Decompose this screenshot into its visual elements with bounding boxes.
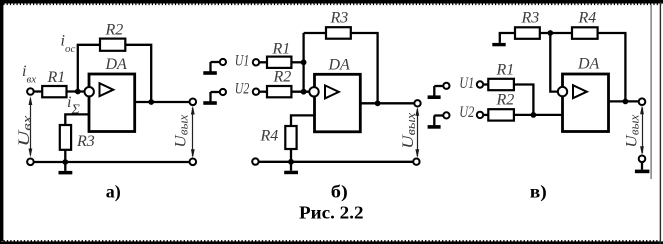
wire U1 to R1 (circuit v): [483, 83, 489, 85]
input circle U1 (circuit b): [253, 59, 259, 65]
svg-text:DA: DA: [328, 56, 351, 73]
wire summing vertical (circuit b): [302, 33, 304, 92]
svg-text:а): а): [106, 181, 121, 202]
node summing junction (circuit v): [531, 112, 537, 118]
node ground junction (circuit b): [288, 159, 294, 165]
input circle U1 (circuit v): [477, 81, 483, 87]
node ground junction (circuit a): [62, 159, 68, 165]
wire input to R1 (circuit a): [33, 90, 43, 92]
ground bottom (circuit v): [635, 162, 650, 173]
resistor R3 (circuit a): [60, 125, 71, 150]
wire R2 to non-inverting input (circuit v): [514, 114, 563, 116]
input terminal symbol 1 (circuit b): [203, 59, 226, 75]
op-amp inverting input circle (circuit a): [85, 87, 94, 96]
svg-text:DA: DA: [105, 56, 128, 73]
resistor R1 (circuit a): [42, 86, 66, 97]
input terminal circle (circuit a): [27, 88, 34, 95]
op-amp DA (circuit a): [89, 74, 135, 132]
svg-text:DA: DA: [577, 55, 600, 72]
wire U1 to R1 (circuit b): [259, 61, 268, 63]
output terminal circle top (circuit a): [190, 99, 197, 106]
node R1 junction (circuit b): [301, 59, 307, 65]
op-amp triangle (circuit v): [573, 85, 587, 98]
resistor R1 (circuit b): [267, 57, 291, 68]
output terminal circle top (circuit b): [414, 100, 420, 106]
border frame right edge line: [659, 2, 661, 244]
node R3-R4 junction (circuit v): [547, 30, 553, 36]
svg-text:U1: U1: [459, 75, 474, 92]
op-amp triangle (circuit b): [325, 85, 339, 98]
resistor R4 (circuit v): [572, 27, 598, 39]
output terminal circle bottom (circuit b): [413, 159, 419, 165]
voltage arrow U_vyx (circuit v): [640, 105, 644, 155]
wire R3 to rail (circuit a): [64, 150, 66, 162]
bottom left terminal circle (circuit a): [27, 159, 34, 166]
svg-text:R2: R2: [496, 92, 515, 109]
wire R1 to op-amp input (circuit a): [67, 90, 87, 92]
node feedback-output junction (circuit b): [375, 100, 381, 106]
wire feedback top right (circuit b): [351, 33, 378, 103]
resistor R2 (circuit v): [488, 109, 514, 120]
bottom rail (circuit b): [255, 161, 416, 163]
input terminal symbol 2 (circuit v): [428, 112, 450, 128]
op-amp inverting input circle (circuit b): [309, 87, 318, 96]
wire R3 to R4 (circuit v): [540, 32, 573, 34]
wire R2 to op-amp input (circuit b): [291, 91, 311, 93]
svg-text:R3: R3: [76, 133, 95, 150]
node sum junction (circuit a): [75, 89, 81, 95]
resistor R4 (circuit b): [285, 126, 296, 149]
output terminal circle top (circuit v): [639, 98, 646, 105]
bottom left terminal circle (circuit b): [252, 158, 258, 164]
svg-text:R3: R3: [521, 9, 540, 26]
resistor R3 (circuit v): [515, 27, 540, 39]
svg-text:U2: U2: [235, 80, 250, 97]
svg-text:в): в): [530, 181, 547, 202]
voltage arrow U_vyx (circuit a): [191, 106, 195, 159]
op-amp inverting input circle (circuit v): [558, 87, 567, 96]
wire U2 to R2 (circuit v): [483, 114, 489, 116]
svg-text:U2: U2: [459, 104, 474, 121]
wire feedback top right (circuit a): [125, 45, 151, 102]
border frame bottom toothed bar: [0, 241, 663, 244]
wire R1 to junction (circuit b): [291, 61, 304, 63]
resistor R2 (circuit a): [100, 39, 125, 51]
svg-text:R4: R4: [260, 128, 279, 145]
input circle U2 (circuit b): [253, 89, 259, 95]
svg-text:б): б): [331, 181, 348, 202]
wire non-inverting input (circuit a): [65, 114, 89, 126]
resistor R2 (circuit b): [267, 86, 291, 97]
wire ground to R3 (circuit v): [499, 32, 516, 34]
wire R1 to junction (circuit v): [514, 85, 534, 115]
resistor R1 (circuit v): [488, 79, 514, 90]
input terminal symbol 2 (circuit b): [203, 89, 226, 105]
border frame left bar: [0, 3, 3, 241]
wire feedback top left (circuit b): [304, 32, 327, 34]
wire non-inverting input (circuit b): [291, 115, 315, 127]
node output junction (circuit v): [623, 99, 629, 105]
wire R4 to rail (circuit b): [290, 149, 292, 162]
ground (circuit a): [59, 162, 73, 174]
svg-text:Рис. 2.2: Рис. 2.2: [299, 203, 364, 223]
svg-text:R1: R1: [496, 62, 515, 79]
output terminal circle bottom (circuit a): [190, 159, 197, 166]
wire op-amp output (circuit a): [135, 101, 190, 103]
node R2 junction (circuit b): [301, 89, 307, 95]
svg-text:R1: R1: [272, 40, 291, 57]
svg-text:R3: R3: [330, 9, 349, 26]
border frame right thin line: [650, 5, 652, 179]
svg-text:R2: R2: [273, 68, 292, 85]
wire op-amp output (circuit b): [360, 102, 414, 104]
bottom rail (circuit a): [30, 161, 192, 163]
wire op-amp output (circuit v): [609, 100, 640, 102]
wire R4 to output (circuit v): [597, 33, 625, 101]
ground (circuit b): [284, 162, 298, 174]
wire feedback vertical (circuit a): [77, 45, 79, 92]
svg-text:R1: R1: [47, 69, 66, 86]
node feedback-output junction (circuit a): [148, 99, 154, 105]
svg-text:U1: U1: [235, 52, 250, 69]
border frame top bar: [0, 0, 663, 4]
voltage arrow U_vyx (circuit b): [415, 107, 419, 158]
resistor R3 (circuit b): [326, 27, 351, 39]
output terminal circle bottom (circuit v): [639, 156, 646, 163]
svg-text:R4: R4: [578, 9, 597, 26]
op-amp DA (circuit v): [563, 74, 609, 132]
op-amp triangle (circuit a): [100, 83, 114, 96]
input terminal symbol 1 (circuit v): [428, 83, 450, 99]
svg-text:R2: R2: [105, 22, 124, 39]
wire feedback top left (circuit a): [77, 44, 101, 46]
input circle U2 (circuit v): [477, 112, 483, 118]
ground top (circuit v): [492, 33, 505, 46]
op-amp DA (circuit b): [315, 74, 361, 132]
wire U2 to R2 (circuit b): [259, 91, 268, 93]
voltage arrow U_vx (circuit a): [29, 96, 33, 158]
wire junction to inverting input (circuit v): [550, 33, 558, 92]
